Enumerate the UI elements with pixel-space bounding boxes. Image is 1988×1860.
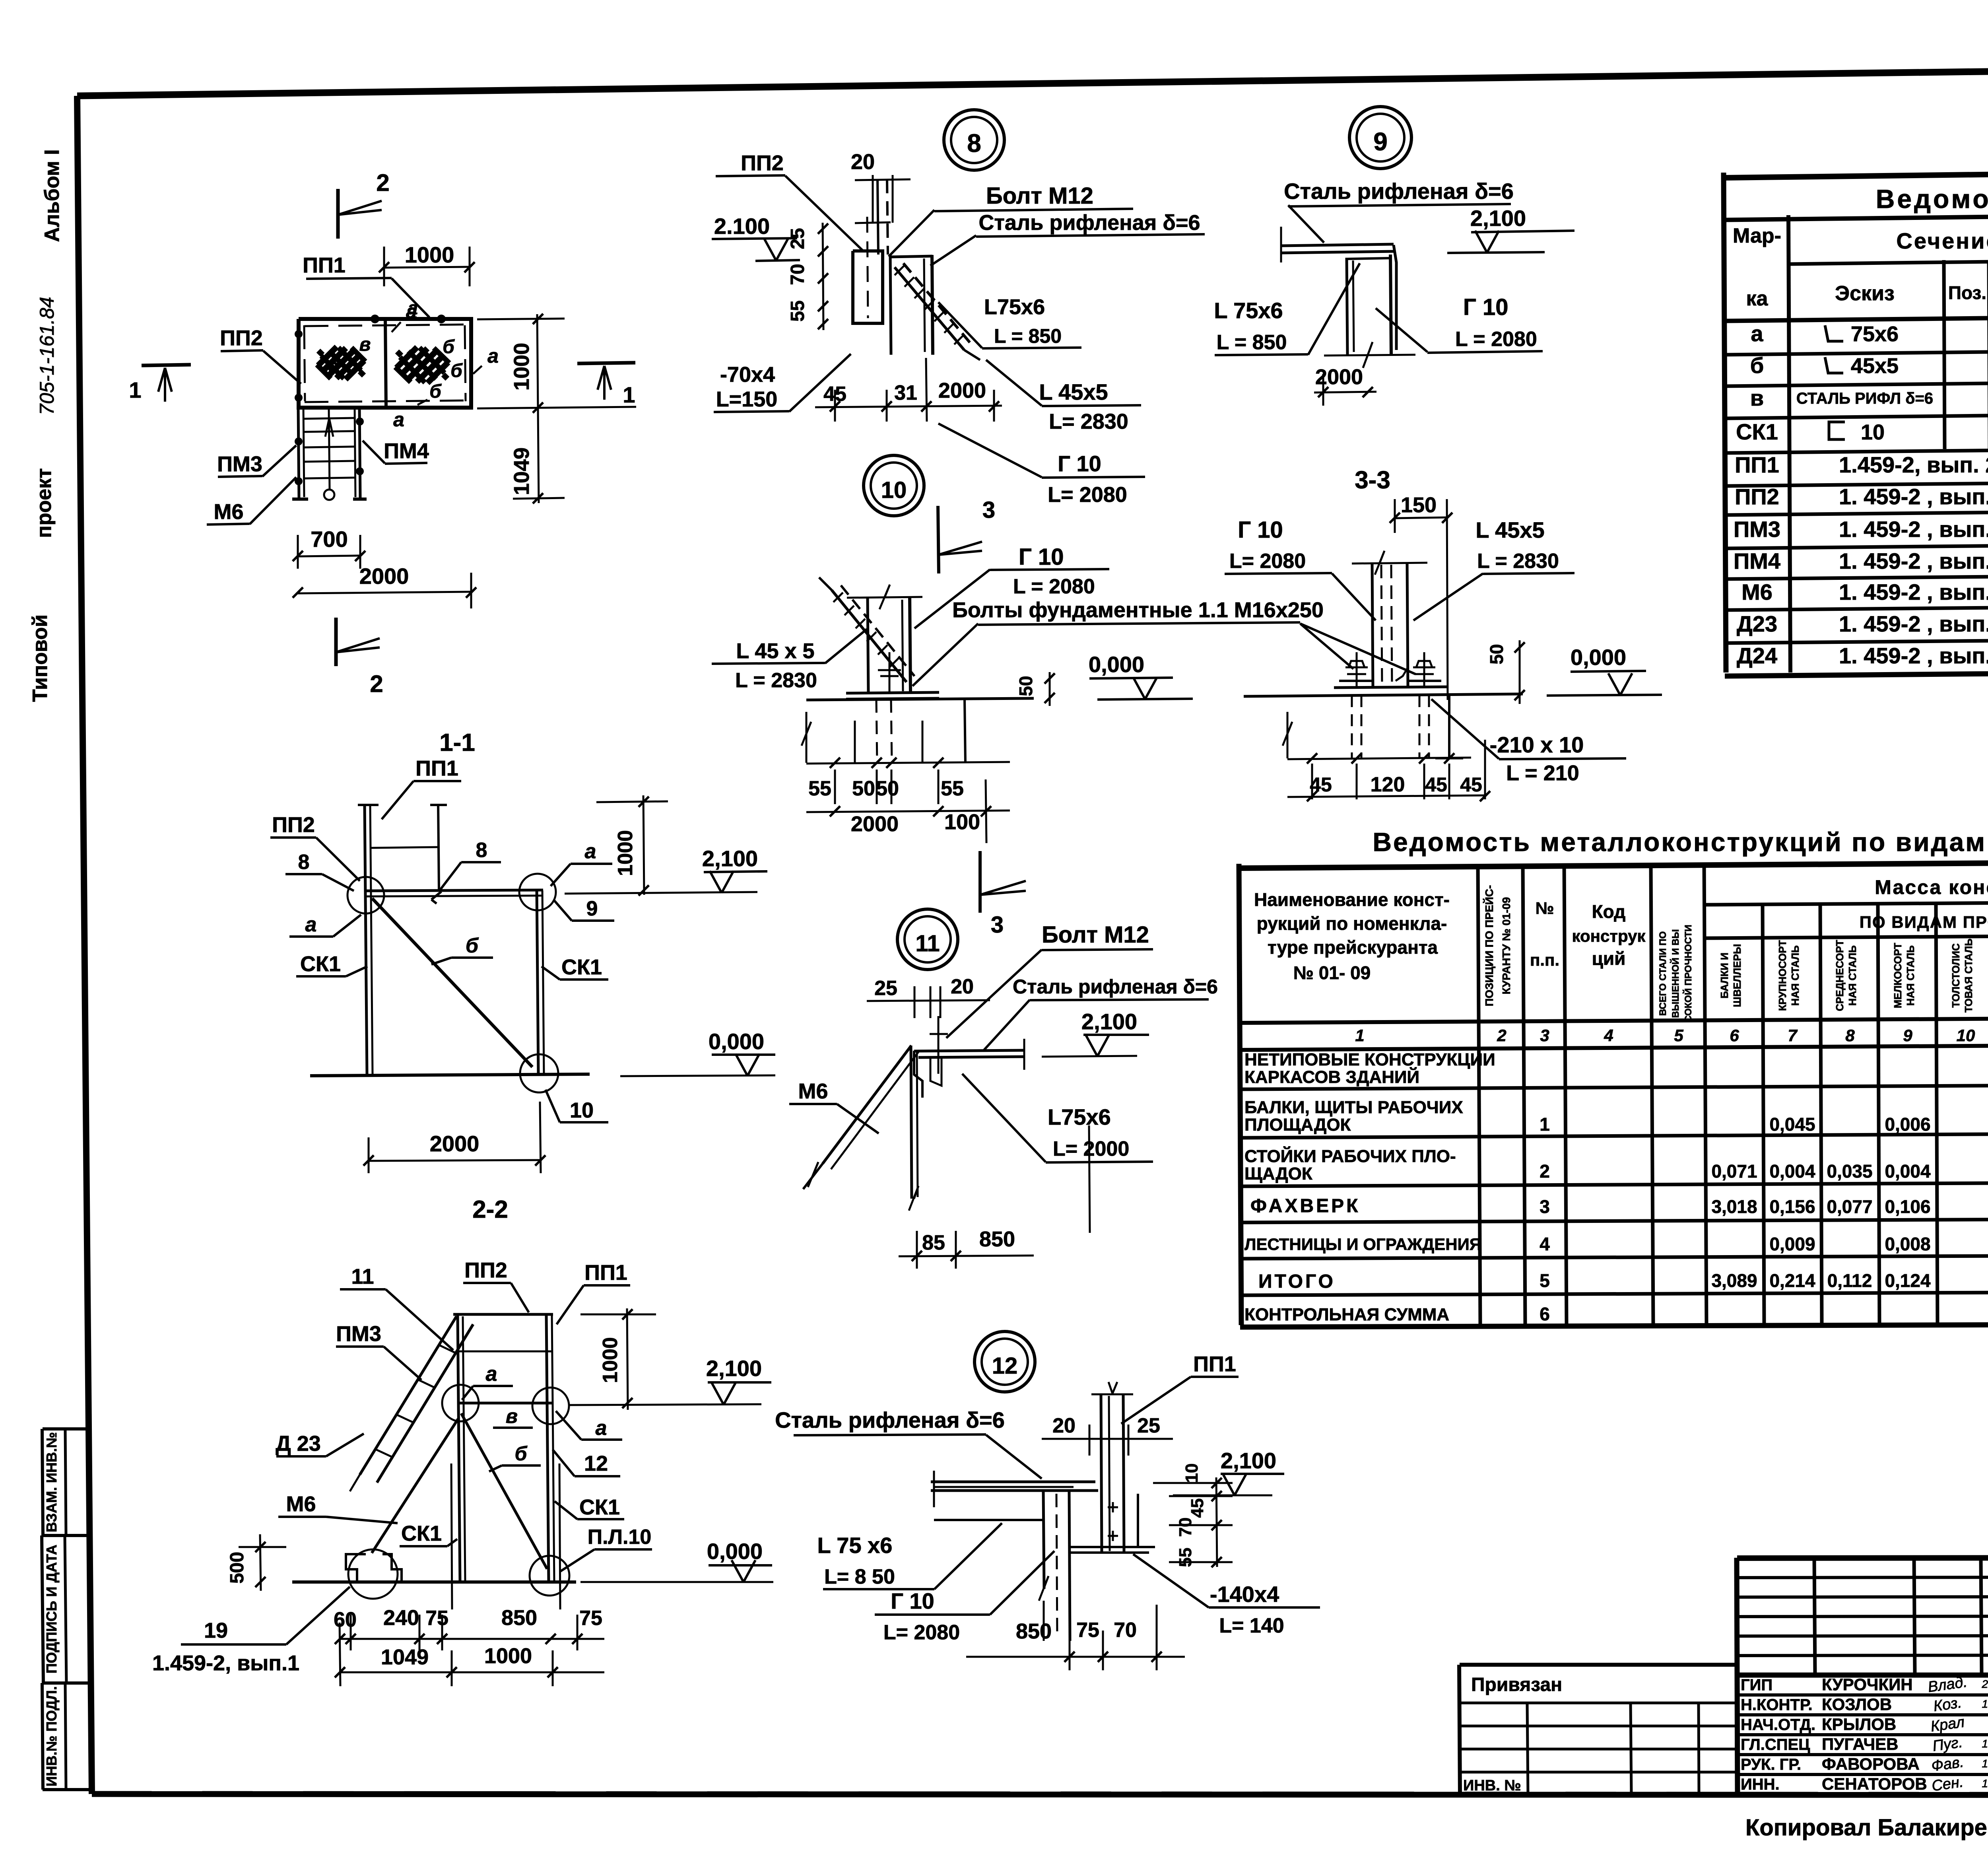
svg-text:50: 50 bbox=[1015, 676, 1036, 696]
svg-text:L= 2080: L= 2080 bbox=[1229, 550, 1306, 573]
svg-text:8: 8 bbox=[1845, 1026, 1855, 1045]
svg-text:12: 12 bbox=[584, 1452, 608, 1475]
svg-text:НАЯ СТАЛЬ: НАЯ СТАЛЬ bbox=[1905, 945, 1916, 1006]
svg-text:2,100: 2,100 bbox=[1470, 206, 1526, 231]
svg-text:ПП2: ПП2 bbox=[272, 813, 315, 837]
svg-text:0,106: 0,106 bbox=[1885, 1196, 1930, 1217]
svg-text:Ведомость элементов: Ведомость элементов bbox=[1876, 184, 1988, 214]
svg-text:КРЫЛОВ: КРЫЛОВ bbox=[1822, 1715, 1896, 1734]
svg-text:а: а bbox=[585, 840, 596, 863]
svg-text:СК1: СК1 bbox=[401, 1522, 442, 1545]
svg-text:КУРАНТУ № 01-09: КУРАНТУ № 01-09 bbox=[1500, 897, 1512, 995]
svg-text:Поз.: Поз. bbox=[1948, 282, 1986, 303]
svg-text:ШВЕЛЛЕРЫ: ШВЕЛЛЕРЫ bbox=[1731, 944, 1743, 1007]
svg-text:НАЯ СТАЛЬ: НАЯ СТАЛЬ bbox=[1789, 945, 1801, 1006]
svg-text:1049: 1049 bbox=[381, 1645, 429, 1669]
svg-text:2.100: 2.100 bbox=[714, 214, 770, 239]
svg-text:П.Л.10: П.Л.10 bbox=[588, 1526, 652, 1549]
svg-text:85: 85 bbox=[922, 1231, 945, 1254]
svg-text:10: 10 bbox=[570, 1098, 594, 1122]
svg-text:Код: Код bbox=[1592, 901, 1626, 922]
svg-text:1: 1 bbox=[1540, 1114, 1550, 1135]
svg-text:70: 70 bbox=[787, 264, 808, 285]
svg-text:L= 2080: L= 2080 bbox=[883, 1621, 960, 1644]
svg-text:а: а bbox=[487, 345, 499, 367]
svg-text:70: 70 bbox=[1176, 1518, 1195, 1537]
svg-text:ВЗАМ. ИНВ.№: ВЗАМ. ИНВ.№ bbox=[43, 1432, 60, 1532]
svg-text:0,000: 0,000 bbox=[709, 1029, 764, 1054]
svg-text:ИНН.: ИНН. bbox=[1741, 1776, 1780, 1793]
svg-text:2,100: 2,100 bbox=[706, 1356, 762, 1381]
svg-text:ИНВ.№ ПОДЛ.: ИНВ.№ ПОДЛ. bbox=[43, 1686, 60, 1786]
svg-text:ПОДПИСЬ И ДАТА: ПОДПИСЬ И ДАТА bbox=[43, 1545, 60, 1673]
svg-text:2000: 2000 bbox=[851, 812, 899, 836]
svg-text:100: 100 bbox=[944, 810, 980, 834]
svg-text:50: 50 bbox=[1486, 644, 1507, 664]
svg-text:1049: 1049 bbox=[510, 447, 534, 495]
svg-text:Копировал Балакирева Форм: Копировал Балакирева Формат А2. bbox=[1745, 1815, 1988, 1841]
svg-text:-210 х 10: -210 х 10 bbox=[1490, 732, 1584, 757]
svg-text:Н.КОНТР.: Н.КОНТР. bbox=[1741, 1696, 1813, 1714]
svg-text:а: а bbox=[408, 297, 418, 318]
svg-text:9: 9 bbox=[586, 897, 598, 920]
svg-text:конструк: конструк bbox=[1572, 927, 1646, 945]
svg-text:БАЛКИ И: БАЛКИ И bbox=[1718, 952, 1730, 999]
svg-text:ПП2: ПП2 bbox=[1735, 484, 1779, 509]
svg-text:0,156: 0,156 bbox=[1769, 1196, 1815, 1217]
svg-text:1. 459-2 , вып. 2 , лист 19: 1. 459-2 , вып. 2 , лист 19 bbox=[1839, 579, 1988, 604]
svg-text:ПП1: ПП1 bbox=[303, 253, 346, 277]
svg-text:L= 2080: L= 2080 bbox=[1048, 483, 1127, 507]
svg-text:ФАХВЕРК: ФАХВЕРК bbox=[1250, 1195, 1360, 1217]
svg-text:ГИП: ГИП bbox=[1741, 1676, 1773, 1694]
svg-text:Болты фундаментные 1.1 М16х250: Болты фундаментные 1.1 М16х250 bbox=[952, 598, 1324, 622]
svg-text:45: 45 bbox=[1425, 774, 1447, 796]
svg-text:ПП1: ПП1 bbox=[584, 1261, 627, 1285]
svg-text:рукций по номенкла-: рукций по номенкла- bbox=[1257, 913, 1447, 934]
svg-text:Сталь рифленая δ=6: Сталь рифленая δ=6 bbox=[978, 211, 1200, 235]
svg-text:ПП1: ПП1 bbox=[415, 756, 458, 780]
svg-text:СТОЙКИ РАБОЧИХ ПЛО-: СТОЙКИ РАБОЧИХ ПЛО- bbox=[1244, 1146, 1456, 1166]
svg-text:0,004: 0,004 bbox=[1885, 1161, 1931, 1182]
svg-text:ИНВ. №: ИНВ. № bbox=[1463, 1777, 1521, 1794]
svg-text:55: 55 bbox=[787, 300, 808, 321]
svg-text:2: 2 bbox=[1540, 1161, 1550, 1182]
svg-text:25: 25 bbox=[1137, 1414, 1160, 1437]
svg-text:9: 9 bbox=[1903, 1026, 1912, 1045]
svg-text:ПЛОЩАДОК: ПЛОЩАДОК bbox=[1244, 1115, 1351, 1135]
svg-text:РУК. ГР.: РУК. ГР. bbox=[1741, 1756, 1801, 1773]
svg-text:ЛЕСТНИЦЫ И ОГРАЖДЕНИЯ: ЛЕСТНИЦЫ И ОГРАЖДЕНИЯ bbox=[1244, 1235, 1481, 1254]
svg-text:б: б bbox=[429, 381, 442, 402]
svg-text:L = 850: L = 850 bbox=[994, 325, 1062, 347]
svg-text:3,018: 3,018 bbox=[1711, 1196, 1757, 1217]
svg-text:L= 2830: L= 2830 bbox=[1049, 410, 1128, 433]
svg-text:СК1: СК1 bbox=[579, 1495, 620, 1519]
svg-text:Г 10: Г 10 bbox=[1238, 517, 1283, 543]
svg-text:Привязан: Привязан bbox=[1471, 1674, 1562, 1695]
svg-text:М6: М6 bbox=[286, 1492, 316, 1516]
svg-text:Ведомость металлоконструкций: Ведомость металлоконструкций по видам пр… bbox=[1373, 827, 1988, 857]
svg-text:0,077: 0,077 bbox=[1827, 1196, 1872, 1217]
svg-text:10: 10 bbox=[1861, 420, 1885, 444]
svg-text:б: б bbox=[1750, 353, 1764, 378]
svg-text:1: 1 bbox=[1355, 1026, 1364, 1045]
svg-text:в: в bbox=[506, 1405, 518, 1427]
svg-text:Г 10: Г 10 bbox=[1058, 451, 1101, 476]
svg-text:Г 10: Г 10 bbox=[1019, 544, 1064, 570]
svg-text:Наименование конст-: Наименование конст- bbox=[1254, 889, 1450, 910]
svg-text:4: 4 bbox=[1540, 1234, 1550, 1254]
svg-text:70: 70 bbox=[1114, 1619, 1137, 1642]
svg-text:Сталь рифленая δ=6: Сталь рифленая δ=6 bbox=[775, 1407, 1005, 1432]
svg-text:10: 10 bbox=[1957, 1026, 1975, 1045]
svg-text:1000: 1000 bbox=[510, 343, 534, 391]
svg-text:L 75x6: L 75x6 bbox=[1214, 298, 1283, 323]
svg-text:в: в bbox=[359, 334, 371, 355]
svg-text:туре прейскуранта: туре прейскуранта bbox=[1268, 937, 1438, 958]
svg-text:ПМ3: ПМ3 bbox=[217, 452, 262, 476]
svg-text:1000: 1000 bbox=[484, 1644, 532, 1668]
svg-text:0,008: 0,008 bbox=[1885, 1234, 1930, 1254]
svg-text:L 45х5: L 45х5 bbox=[1039, 379, 1108, 404]
svg-text:ПП2: ПП2 bbox=[220, 326, 263, 350]
svg-text:ПУГАЧЕВ: ПУГАЧЕВ bbox=[1822, 1735, 1898, 1753]
svg-text:2: 2 bbox=[1497, 1026, 1506, 1045]
svg-text:11: 11 bbox=[351, 1265, 374, 1289]
svg-text:ПМ4: ПМ4 bbox=[1734, 548, 1780, 573]
svg-text:б: б bbox=[450, 360, 463, 381]
svg-text:20: 20 bbox=[851, 150, 875, 174]
svg-text:850: 850 bbox=[501, 1606, 537, 1630]
svg-text:2: 2 bbox=[376, 169, 389, 196]
svg-text:15.11.83: 15.11.83 bbox=[1982, 1698, 1988, 1710]
svg-text:L 75 х6: L 75 х6 bbox=[817, 1533, 893, 1558]
svg-text:1. 459-2 , вып. 1 , лист 81: 1. 459-2 , вып. 1 , лист 81 bbox=[1839, 611, 1988, 636]
svg-text:КУРОЧКИН: КУРОЧКИН bbox=[1822, 1675, 1913, 1694]
svg-text:45: 45 bbox=[1460, 774, 1482, 796]
svg-text:L75х6: L75х6 bbox=[1048, 1104, 1111, 1129]
svg-text:2,100: 2,100 bbox=[702, 846, 758, 871]
svg-text:ТОЛСТОЛИС: ТОЛСТОЛИС bbox=[1950, 943, 1962, 1008]
svg-text:СК1: СК1 bbox=[1736, 419, 1778, 444]
svg-text:1000: 1000 bbox=[614, 830, 637, 876]
svg-text:25: 25 bbox=[787, 228, 808, 249]
svg-text:КОНТРОЛЬНАЯ СУММА: КОНТРОЛЬНАЯ СУММА bbox=[1244, 1305, 1449, 1324]
svg-text:1. 459-2 , вып. 2, лист 75: 1. 459-2 , вып. 2, лист 75 bbox=[1839, 484, 1988, 509]
svg-text:45: 45 bbox=[1310, 774, 1332, 796]
svg-text:1.459-2, вып.1: 1.459-2, вып.1 bbox=[152, 1651, 299, 1675]
svg-text:ПП1: ПП1 bbox=[1193, 1352, 1236, 1376]
svg-text:ПП1: ПП1 bbox=[1735, 452, 1779, 477]
svg-text:ВЫШЕННОЙ И ВЫ: ВЫШЕННОЙ И ВЫ bbox=[1670, 929, 1681, 1018]
svg-text:а: а bbox=[596, 1417, 607, 1440]
svg-text:Мар-: Мар- bbox=[1733, 224, 1781, 247]
svg-text:8: 8 bbox=[476, 839, 487, 862]
svg-text:ТОВАЯ СТАЛЬ: ТОВАЯ СТАЛЬ bbox=[1963, 939, 1974, 1013]
svg-text:L = 2830: L = 2830 bbox=[735, 669, 817, 692]
svg-text:ПМ4: ПМ4 bbox=[384, 439, 429, 463]
svg-text:М6: М6 bbox=[798, 1079, 828, 1103]
svg-text:1: 1 bbox=[623, 382, 635, 407]
svg-text:1000: 1000 bbox=[405, 242, 454, 267]
svg-text:Д23: Д23 bbox=[1737, 611, 1777, 636]
svg-text:150: 150 bbox=[1401, 493, 1437, 517]
svg-text:Сталь рифленая δ=6: Сталь рифленая δ=6 bbox=[1284, 179, 1514, 204]
svg-text:14.11.83: 14.11.83 bbox=[1982, 1777, 1988, 1790]
svg-text:0,000: 0,000 bbox=[1089, 652, 1144, 677]
svg-text:10: 10 bbox=[881, 477, 907, 503]
svg-text:Болт М12: Болт М12 bbox=[1042, 922, 1149, 948]
svg-text:НЕТИПОВЫЕ КОНСТРУКЦИИ: НЕТИПОВЫЕ КОНСТРУКЦИИ bbox=[1244, 1050, 1495, 1069]
svg-text:б: б bbox=[327, 355, 340, 376]
svg-text:Д 23: Д 23 bbox=[276, 1432, 321, 1456]
svg-text:25: 25 bbox=[874, 977, 897, 1000]
svg-text:0,009: 0,009 bbox=[1769, 1234, 1815, 1254]
svg-text:8: 8 bbox=[298, 851, 310, 874]
svg-text:240: 240 bbox=[383, 1606, 419, 1630]
svg-text:3,089: 3,089 bbox=[1711, 1270, 1757, 1291]
svg-text:СК1: СК1 bbox=[561, 955, 602, 979]
svg-text:-70х4: -70х4 bbox=[720, 363, 775, 387]
svg-text:1: 1 bbox=[129, 377, 141, 402]
svg-text:75: 75 bbox=[579, 1607, 602, 1630]
svg-text:75: 75 bbox=[1076, 1619, 1099, 1642]
svg-text:75x6: 75x6 bbox=[1851, 322, 1899, 346]
svg-text:М6: М6 bbox=[1741, 579, 1773, 604]
svg-text:ГЛ.СПЕЦ: ГЛ.СПЕЦ bbox=[1741, 1736, 1810, 1753]
svg-text:700: 700 bbox=[311, 527, 348, 552]
svg-text:2,100: 2,100 bbox=[1081, 1009, 1137, 1034]
svg-text:3-3: 3-3 bbox=[1355, 466, 1390, 494]
svg-text:12: 12 bbox=[992, 1353, 1018, 1379]
svg-text:2,100: 2,100 bbox=[1221, 1448, 1276, 1473]
svg-text:1000: 1000 bbox=[599, 1337, 622, 1383]
svg-text:ИТОГО: ИТОГО bbox=[1258, 1271, 1336, 1292]
svg-text:L = 2830: L = 2830 bbox=[1477, 550, 1559, 573]
svg-text:5: 5 bbox=[1540, 1270, 1550, 1291]
svg-text:Болт М12: Болт М12 bbox=[986, 183, 1093, 209]
svg-text:БАЛКИ, ЩИТЫ РАБОЧИХ: БАЛКИ, ЩИТЫ РАБОЧИХ bbox=[1244, 1098, 1463, 1117]
svg-text:МЕЛКОСОРТ: МЕЛКОСОРТ bbox=[1892, 943, 1904, 1009]
svg-text:9: 9 bbox=[1373, 127, 1388, 156]
svg-text:ВСЕГО СТАЛИ ПО: ВСЕГО СТАЛИ ПО bbox=[1658, 931, 1668, 1016]
svg-text:850: 850 bbox=[979, 1227, 1015, 1251]
svg-text:L= 140: L= 140 bbox=[1219, 1614, 1284, 1637]
svg-text:850: 850 bbox=[1016, 1619, 1052, 1643]
svg-text:СТАЛЬ РИФЛ δ=6: СТАЛЬ РИФЛ δ=6 bbox=[1796, 390, 1933, 407]
svg-text:б: б bbox=[443, 336, 455, 358]
svg-text:16.11.83: 16.11.83 bbox=[1982, 1738, 1988, 1750]
svg-text:16.11.83: 16.11.83 bbox=[1982, 1757, 1988, 1770]
svg-text:L= 2000: L= 2000 bbox=[1053, 1137, 1129, 1160]
svg-text:5: 5 bbox=[1674, 1026, 1683, 1045]
svg-text:Типовой: Типовой bbox=[29, 614, 52, 702]
svg-text:11: 11 bbox=[915, 931, 940, 956]
svg-text:2-2: 2-2 bbox=[472, 1196, 508, 1223]
svg-text:31: 31 bbox=[894, 381, 917, 404]
svg-text:45x5: 45x5 bbox=[1851, 354, 1899, 378]
svg-text:3: 3 bbox=[1540, 1196, 1550, 1217]
svg-text:20: 20 bbox=[951, 975, 974, 998]
svg-text:L75х6: L75х6 bbox=[984, 295, 1045, 319]
svg-text:ПО ВИДАМ ПРОФИЛЕЙ СТАЛИ: ПО ВИДАМ ПРОФИЛЕЙ СТАЛИ bbox=[1860, 912, 1988, 931]
svg-text:в: в bbox=[1750, 385, 1764, 410]
svg-text:L = 2080: L = 2080 bbox=[1013, 575, 1095, 598]
svg-text:22.11.83: 22.11.83 bbox=[1982, 1678, 1988, 1690]
svg-text:6: 6 bbox=[1730, 1026, 1739, 1045]
svg-text:НАЯ СТАЛЬ: НАЯ СТАЛЬ bbox=[1846, 945, 1858, 1006]
svg-text:Д24: Д24 bbox=[1737, 643, 1777, 668]
svg-text:55: 55 bbox=[808, 777, 831, 800]
svg-text:1. 459-2 , вып. 2 , лист 55: 1. 459-2 , вып. 2 , лист 55 bbox=[1839, 548, 1988, 573]
svg-text:75: 75 bbox=[425, 1607, 448, 1630]
svg-text:ЩАДОК: ЩАДОК bbox=[1244, 1164, 1312, 1184]
svg-text:0,112: 0,112 bbox=[1827, 1270, 1872, 1291]
svg-text:a: a bbox=[1751, 321, 1763, 346]
svg-text:Сечение: Сечение bbox=[1896, 228, 1988, 253]
svg-text:б: б bbox=[466, 934, 479, 957]
svg-text:L 45 х 5: L 45 х 5 bbox=[736, 639, 814, 663]
svg-text:2000: 2000 bbox=[430, 1131, 480, 1156]
svg-text:6: 6 bbox=[1540, 1304, 1550, 1324]
svg-text:45: 45 bbox=[823, 383, 846, 406]
svg-text:Г 10: Г 10 bbox=[1463, 294, 1508, 320]
svg-text:4: 4 bbox=[1604, 1026, 1613, 1045]
svg-text:L=150: L=150 bbox=[716, 387, 778, 411]
svg-text:705-1-161.84: 705-1-161.84 bbox=[36, 297, 58, 415]
svg-text:2: 2 bbox=[370, 671, 383, 697]
svg-text:Г 10: Г 10 bbox=[891, 1588, 934, 1613]
svg-text:1. 459-2 , вып. 2, лист 55: 1. 459-2 , вып. 2, лист 55 bbox=[1839, 517, 1988, 542]
svg-text:Альбом I: Альбом I bbox=[41, 149, 64, 242]
svg-text:2000: 2000 bbox=[359, 564, 409, 589]
svg-text:3: 3 bbox=[1540, 1026, 1549, 1045]
svg-text:СОКОЙ ПРОЧНОСТИ: СОКОЙ ПРОЧНОСТИ bbox=[1683, 925, 1694, 1022]
svg-text:19: 19 bbox=[204, 1619, 228, 1642]
svg-text:-140х4: -140х4 bbox=[1210, 1582, 1279, 1607]
svg-text:ПП2: ПП2 bbox=[464, 1258, 507, 1282]
svg-text:L= 8 50: L= 8 50 bbox=[824, 1565, 895, 1588]
svg-text:0,006: 0,006 bbox=[1885, 1114, 1930, 1135]
svg-text:120: 120 bbox=[1371, 773, 1405, 796]
svg-text:СЕНАТОРОВ: СЕНАТОРОВ bbox=[1822, 1774, 1927, 1793]
svg-text:55: 55 bbox=[941, 777, 964, 800]
svg-text:3: 3 bbox=[982, 497, 995, 523]
svg-text:55: 55 bbox=[1176, 1548, 1195, 1567]
svg-text:КРУПНОСОРТ: КРУПНОСОРТ bbox=[1776, 940, 1788, 1011]
svg-text:50: 50 bbox=[876, 777, 899, 800]
svg-text:Эскиз: Эскиз bbox=[1835, 282, 1895, 305]
svg-text:а: а bbox=[393, 408, 404, 431]
svg-text:КОЗЛОВ: КОЗЛОВ bbox=[1822, 1695, 1892, 1714]
svg-text:ПП2: ПП2 bbox=[741, 151, 784, 175]
svg-text:0,000: 0,000 bbox=[1571, 645, 1626, 670]
svg-text:ций: ций bbox=[1592, 948, 1626, 969]
svg-text:ПМ3: ПМ3 bbox=[1734, 517, 1780, 542]
svg-text:а: а bbox=[305, 913, 317, 936]
svg-text:Сталь рифленая δ=6: Сталь рифленая δ=6 bbox=[1013, 976, 1218, 998]
svg-text:№ 01- 09: № 01- 09 bbox=[1293, 962, 1371, 983]
svg-text:L = 2080: L = 2080 bbox=[1455, 328, 1537, 351]
svg-text:0,071: 0,071 bbox=[1711, 1161, 1757, 1182]
svg-text:2000: 2000 bbox=[938, 379, 986, 402]
svg-text:б: б bbox=[515, 1442, 528, 1465]
svg-text:ПМ3: ПМ3 bbox=[336, 1322, 381, 1346]
svg-text:НАЧ.ОТД.: НАЧ.ОТД. bbox=[1741, 1716, 1815, 1734]
svg-text:L = 850: L = 850 bbox=[1217, 331, 1287, 354]
svg-text:45: 45 bbox=[1188, 1498, 1207, 1518]
svg-text:№: № bbox=[1536, 899, 1554, 917]
svg-text:КАРКАСОВ ЗДАНИЙ: КАРКАСОВ ЗДАНИЙ bbox=[1244, 1067, 1419, 1087]
svg-text:1. 459-2 , вып. 1 , лист 81: 1. 459-2 , вып. 1 , лист 81 bbox=[1839, 643, 1988, 668]
svg-text:L 45х5: L 45х5 bbox=[1475, 517, 1544, 542]
svg-text:10: 10 bbox=[1182, 1464, 1202, 1483]
svg-text:60: 60 bbox=[334, 1608, 357, 1631]
svg-text:проект: проект bbox=[33, 468, 56, 538]
svg-text:СРЕДНЕСОРТ: СРЕДНЕСОРТ bbox=[1834, 940, 1846, 1011]
svg-text:500: 500 bbox=[227, 1552, 248, 1584]
svg-text:а: а bbox=[486, 1362, 497, 1386]
svg-text:М6: М6 bbox=[214, 500, 243, 524]
svg-text:ПОЗИЦИИ ПО ПРЕЙС-: ПОЗИЦИИ ПО ПРЕЙС- bbox=[1483, 885, 1495, 1007]
svg-text:20: 20 bbox=[1052, 1414, 1076, 1437]
svg-text:СК1: СК1 bbox=[300, 952, 341, 976]
svg-text:0,045: 0,045 bbox=[1769, 1114, 1815, 1135]
svg-text:1.459-2, вып. 2, лист 75: 1.459-2, вып. 2, лист 75 bbox=[1839, 452, 1988, 477]
svg-text:ФАВОРОВА: ФАВОРОВА bbox=[1822, 1755, 1920, 1773]
svg-text:0,214: 0,214 bbox=[1769, 1270, 1815, 1291]
svg-text:50: 50 bbox=[852, 777, 875, 800]
svg-text:0,004: 0,004 bbox=[1769, 1161, 1815, 1182]
svg-text:1-1: 1-1 bbox=[439, 729, 475, 756]
svg-text:Масса конструкций , т: Масса конструкций , т bbox=[1875, 876, 1988, 898]
svg-text:L = 210: L = 210 bbox=[1506, 761, 1579, 785]
svg-text:3: 3 bbox=[991, 912, 1004, 938]
svg-text:0,124: 0,124 bbox=[1885, 1270, 1931, 1291]
svg-text:п.п.: п.п. bbox=[1530, 950, 1559, 969]
svg-text:8: 8 bbox=[967, 129, 981, 157]
svg-text:0,035: 0,035 bbox=[1827, 1161, 1872, 1182]
svg-text:7: 7 bbox=[1788, 1026, 1798, 1045]
svg-text:ка: ка bbox=[1746, 287, 1769, 310]
